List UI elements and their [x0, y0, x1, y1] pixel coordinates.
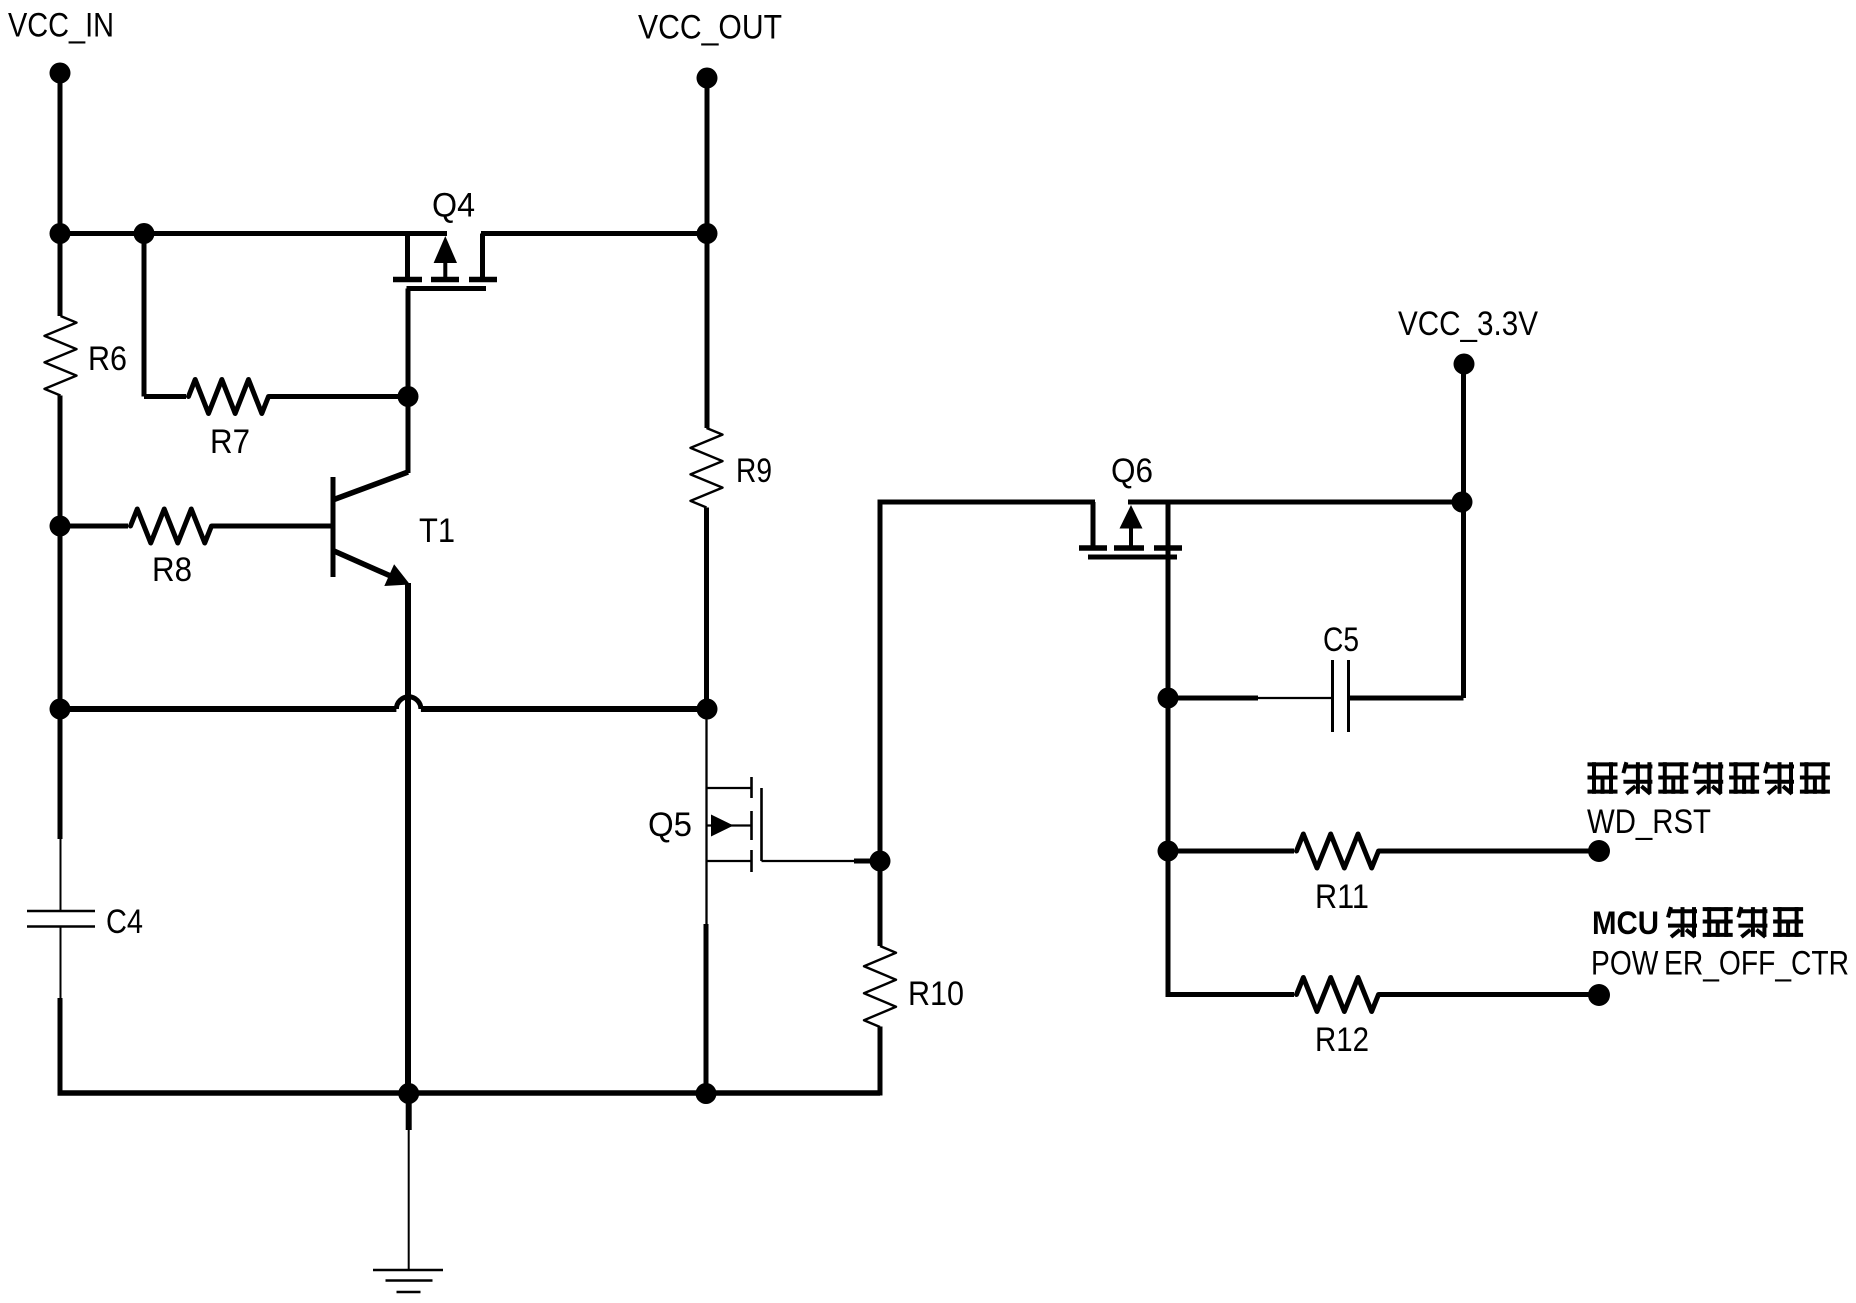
transistor Q5 channel dashes: [750, 777, 753, 872]
resistor R11: [1297, 834, 1379, 868]
label R11: [1315, 878, 1369, 916]
ground symbol: [373, 1270, 443, 1292]
ground stub thick: [406, 1093, 412, 1130]
transistor T1 emitter diagonal: [334, 551, 403, 582]
svg-text:VCC_OUT: VCC_OUT: [638, 9, 782, 47]
label R10: [908, 975, 964, 1013]
wire R12 left lead: [1166, 992, 1295, 997]
svg-text:R10: R10: [908, 975, 964, 1013]
wire VCC_3.3V vertical: [1461, 364, 1466, 698]
wire left rail R8 node to mid node: [58, 526, 63, 709]
wire left rail mid node to C4: [58, 709, 63, 839]
resistor R12: [1297, 978, 1379, 1012]
node VCC_OUT terminal: [697, 68, 718, 89]
svg-text:R6: R6: [88, 340, 127, 378]
wire Q5 gate thin: [762, 860, 855, 862]
wire left rail R6 to R8 node: [58, 396, 63, 527]
transistor Q6 label: [1111, 452, 1153, 490]
node VCC_3.3V terminal: [1454, 354, 1475, 375]
transistor Q4 gate line: [407, 286, 487, 291]
svg-text:C4: C4: [106, 903, 143, 941]
label R6: [88, 340, 127, 378]
label R12: [1315, 1021, 1369, 1059]
wire R10 top lead: [878, 861, 883, 946]
net label VCC_3.3V: [1398, 305, 1538, 343]
wire bottom rail: [58, 1090, 881, 1096]
transistor Q4 body arrow: [434, 236, 457, 278]
transistor T1 emitter arrow: [384, 564, 410, 586]
node junction left rail mid: [50, 699, 71, 720]
node junction R8 on left rail: [50, 516, 71, 537]
node POWER_OFF_CTR terminal: [1588, 984, 1610, 1006]
wire C5 right lead: [1349, 696, 1464, 701]
node junction VCC_3.3V rail: [1452, 492, 1473, 513]
wire top rail left (VCC_IN to Q4 source): [58, 231, 448, 236]
transistor Q4 label: [432, 187, 475, 225]
wire R11 right lead: [1379, 849, 1599, 854]
svg-text:T1: T1: [419, 512, 455, 550]
transistor T1 label: [419, 512, 455, 550]
net label VCC_OUT: [638, 9, 782, 47]
wire VCC_IN vertical: [58, 73, 63, 233]
wire Q4 gate to node / T1 collector vertical: [406, 289, 411, 474]
wire mid rail left segment: [60, 706, 396, 712]
node junction R7 branch: [134, 223, 155, 244]
wire R9 bottom lead: [704, 508, 709, 710]
node junction Q5 gate / R10: [870, 851, 891, 872]
svg-text:WD_RST: WD_RST: [1587, 803, 1711, 841]
net label VCC_IN: [8, 7, 114, 45]
capacitor C4 top plate: [27, 910, 95, 913]
svg-text:R11: R11: [1315, 878, 1369, 916]
svg-text:Q6: Q6: [1111, 452, 1153, 490]
wire left rail below C4: [58, 998, 63, 1093]
wire R7 right lead: [269, 394, 408, 399]
node VCC_IN terminal: [50, 63, 71, 84]
capacitor C5 left lead: [1258, 697, 1331, 699]
transistor Q5 body arrow line: [707, 824, 752, 826]
capacitor C5 right plate: [1347, 660, 1350, 732]
label R7: [210, 423, 250, 461]
node junction VCC_IN rail: [50, 223, 71, 244]
svg-text:C5: C5: [1323, 621, 1359, 659]
label MCU power-off control (Chinese): [1592, 905, 1803, 941]
wire top right rail (arrow tip to VCC_3.3V node): [1128, 500, 1462, 505]
wire Q5 source vertical thick: [704, 924, 709, 1093]
node junction VCC_OUT rail: [697, 223, 718, 244]
transistor Q6 drain bar: [1154, 545, 1182, 551]
wire Q5 gate thick to node: [854, 859, 880, 864]
transistor Q4 source bar: [393, 277, 422, 283]
transistor Q6 source drop: [1091, 502, 1096, 546]
transistor T1 collector diagonal: [334, 472, 408, 500]
wire R7 branch vertical: [142, 234, 147, 397]
wire R11 left lead: [1168, 849, 1294, 854]
label R9: [736, 452, 772, 490]
node junction R11: [1158, 841, 1179, 862]
svg-text:MCU: MCU: [1592, 905, 1659, 941]
svg-text:R8: R8: [152, 551, 192, 589]
transistor Q6 gate line: [1088, 555, 1177, 560]
wire left rail above R6: [58, 231, 63, 316]
capacitor C4 bottom plate: [27, 925, 95, 928]
node junction mid rail / R9 / Q5 drain: [697, 699, 718, 720]
transistor Q6 source bar: [1079, 545, 1107, 551]
transistor Q4 source drop: [405, 234, 410, 279]
svg-text:R12: R12: [1315, 1021, 1369, 1059]
svg-text:R9: R9: [736, 452, 772, 490]
wire R12 right lead: [1379, 992, 1599, 997]
transistor Q5 body arrow: [711, 815, 734, 837]
wire R8 left lead: [60, 524, 128, 529]
wire T1 emitter vertical: [405, 583, 411, 1093]
label POWER_OFF_CTR: [1591, 945, 1849, 983]
capacitor C4 top lead: [60, 839, 62, 911]
label WD_RST: [1587, 803, 1711, 841]
transistor Q4 drain riser: [480, 234, 485, 280]
label C4: [106, 903, 143, 941]
wire top rail right (Q4 drain to VCC_OUT): [481, 231, 707, 236]
node junction bottom rail / Q5 source: [696, 1083, 717, 1104]
svg-text:Q5: Q5: [648, 806, 692, 844]
node junction R7 / Q4 gate / T1 collector: [398, 386, 419, 407]
transistor Q5 source stub: [707, 860, 752, 862]
wire Q5/Q6 branch top corner: [880, 502, 1095, 861]
node junction bottom rail / ground: [398, 1083, 419, 1104]
label R8: [152, 551, 192, 589]
capacitor C5 left plate: [1331, 660, 1334, 732]
svg-text:VCC_3.3V: VCC_3.3V: [1398, 305, 1538, 343]
transistor Q5 drain stub: [707, 787, 752, 789]
ground lead thin: [408, 1130, 410, 1269]
transistor T1 base bar: [331, 477, 336, 577]
transistor Q6 body arrow: [1120, 505, 1143, 546]
node junction Q6 gate / C5 / R11: [1158, 688, 1179, 709]
wire R8 right lead (base wire): [212, 524, 331, 529]
wire R10 bottom lead: [878, 1027, 883, 1096]
wire Q6 drain riser and gate drop: [1166, 502, 1171, 698]
svg-text:R7: R7: [210, 423, 250, 461]
transistor Q4 body bar: [431, 277, 459, 283]
transistor Q5 label: [648, 806, 692, 844]
resistor R6: [45, 316, 77, 395]
wire mid rail right segment: [421, 706, 707, 712]
wire C5 left thick: [1168, 696, 1258, 701]
resistor R8: [131, 509, 212, 543]
transistor Q5 drain lead: [705, 709, 707, 924]
resistor R9: [691, 428, 723, 507]
wire VCC_OUT vertical to R9: [705, 78, 710, 428]
node WD_RST terminal: [1588, 840, 1610, 862]
label C5: [1323, 621, 1359, 659]
wire R11 column upper: [1166, 698, 1171, 851]
capacitor C4 bottom lead: [60, 927, 62, 999]
resistor R10: [864, 946, 896, 1027]
svg-text:POW ER_OFF_CTR: POW ER_OFF_CTR: [1591, 945, 1849, 983]
wire R7 left lead: [144, 394, 186, 399]
label watchdog power-off control (Chinese): [1588, 762, 1830, 794]
transistor Q6 body bar: [1114, 545, 1144, 551]
svg-text:Q4: Q4: [432, 187, 475, 225]
transistor Q4 drain bar: [469, 277, 497, 283]
transistor Q5 gate bar: [760, 788, 763, 861]
wire hop over emitter line: [396, 697, 421, 709]
wire R11 column lower: [1166, 851, 1171, 997]
resistor R7: [189, 380, 269, 414]
svg-text:VCC_IN: VCC_IN: [8, 7, 114, 45]
